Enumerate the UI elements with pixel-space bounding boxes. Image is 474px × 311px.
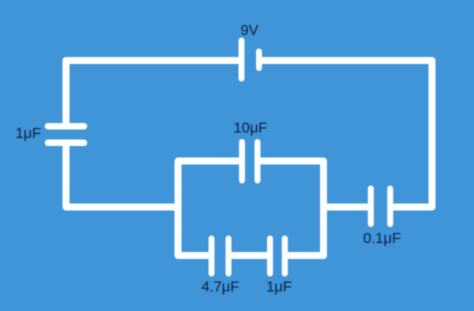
capacitor C1 (1uF left) bottom plate	[48, 140, 84, 147]
capacitor C5 (0.1uF) right plate	[387, 189, 393, 225]
wire: top-right (battery to top-right corner, down right side to 0.1uF)	[263, 61, 433, 208]
capacitor C3 (4.7uF) left plate	[209, 239, 215, 274]
capacitor C4 (1uF bottom) left plate	[267, 239, 273, 274]
svg-text:10μF: 10μF	[234, 121, 268, 137]
svg-text:4.7μF: 4.7μF	[201, 280, 239, 296]
wire: box right side to 0.1uF left plate	[324, 204, 369, 211]
wire: left vertical lower segment + bottom-left horizontal to box	[66, 147, 178, 207]
wire: middle box right side with top/bottom corners	[261, 161, 324, 256]
capacitor C2 (10uF) right plate	[255, 142, 261, 181]
wire: top-left corner (left vertical upper segment + top wire to battery)	[66, 61, 238, 123]
wire: box bottom middle segment between 4.7uF and 1uF	[233, 252, 267, 259]
svg-text:1μF: 1μF	[15, 126, 41, 142]
wire: middle box left side with top/bottom corners	[178, 161, 239, 256]
svg-text:9V: 9V	[241, 23, 259, 39]
capacitor C1 (1uF left) top plate	[48, 123, 84, 130]
capacitor C3 (4.7uF) right plate	[226, 239, 232, 274]
svg-text:1μF: 1μF	[266, 280, 292, 296]
svg-text:0.1μF: 0.1μF	[363, 231, 401, 247]
battery V1 short plate (-)	[256, 52, 262, 69]
capacitor C2 (10uF) left plate	[239, 142, 245, 181]
battery V1 long plate (+)	[239, 41, 245, 79]
capacitor C5 (0.1uF) left plate	[368, 189, 374, 225]
capacitor C4 (1uF bottom) right plate	[282, 239, 288, 274]
